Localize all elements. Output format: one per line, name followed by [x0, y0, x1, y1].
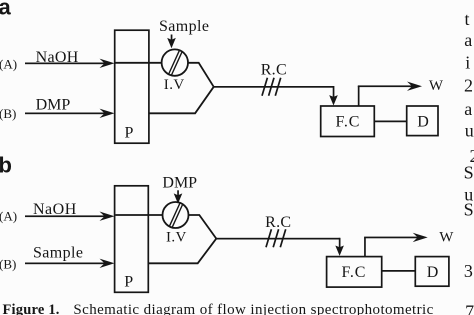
svg-text:7: 7 — [465, 302, 474, 315]
svg-text:F.C: F.C — [342, 264, 367, 281]
svg-text:Sample: Sample — [159, 18, 209, 35]
injection valve I.V top — [162, 49, 188, 75]
svg-text:W: W — [429, 78, 444, 94]
svg-text:S: S — [464, 163, 474, 183]
svg-text:DMP: DMP — [36, 97, 71, 114]
svg-text:a: a — [464, 99, 472, 119]
DMP arrow bottom — [174, 190, 183, 204]
svg-text:2: 2 — [464, 76, 473, 96]
svg-text:(B): (B) — [0, 257, 16, 272]
svg-text:DMP: DMP — [162, 174, 197, 191]
svg-text:(B): (B) — [0, 106, 16, 121]
flow cell F.C bottom — [327, 257, 382, 288]
wire B from pump to junction top — [149, 87, 214, 114]
svg-text:D: D — [417, 113, 429, 130]
wire from valve exit top — [188, 63, 214, 87]
svg-text:P: P — [125, 125, 134, 142]
svg-text:I.V: I.V — [166, 229, 187, 245]
svg-text:NaOH: NaOH — [33, 201, 77, 218]
wire A through pump to valve bottom — [115, 214, 162, 216]
adjacent column text fragments — [464, 9, 474, 315]
injection valve I.V bottom — [163, 202, 189, 228]
svg-text:R.C: R.C — [261, 61, 287, 78]
wire arrow B top — [25, 109, 115, 118]
svg-text:P: P — [124, 273, 133, 290]
svg-text:i: i — [465, 53, 470, 73]
pump P bottom — [115, 186, 149, 292]
svg-text:R.C: R.C — [265, 214, 291, 231]
svg-text:F.C: F.C — [336, 114, 361, 131]
reaction coil marks top — [262, 78, 281, 96]
wire arrow B bottom — [25, 259, 115, 268]
svg-text:a: a — [464, 30, 472, 50]
connector flow cell to detector top — [374, 120, 406, 122]
svg-text:Figure 1.: Figure 1. — [3, 302, 60, 315]
detector D top — [407, 106, 438, 136]
waste wire W top — [358, 82, 422, 107]
svg-text:(A): (A) — [0, 209, 17, 224]
reaction coil marks bottom — [266, 229, 286, 247]
svg-text:W: W — [439, 229, 454, 245]
connector flow cell to detector bottom — [382, 270, 416, 272]
sample arrow top — [167, 35, 176, 49]
wire B from pump to junction bottom — [148, 239, 216, 264]
svg-text:(A): (A) — [0, 56, 17, 71]
svg-text:S: S — [464, 200, 474, 220]
main wire junction to flow cell bottom — [216, 238, 344, 256]
wire arrow A bottom — [25, 212, 115, 221]
svg-text:t: t — [465, 9, 470, 29]
main wire junction to flow cell top — [214, 86, 338, 106]
svg-text:D: D — [427, 264, 439, 281]
svg-text:b: b — [0, 152, 12, 177]
svg-text:3: 3 — [464, 261, 473, 281]
svg-text:I.V: I.V — [164, 77, 185, 93]
flow cell F.C top — [321, 106, 375, 137]
wire from valve exit bottom — [189, 215, 217, 239]
svg-text:a: a — [0, 0, 12, 19]
wire arrow A top — [25, 59, 115, 68]
svg-text:Schematic diagram of flow inje: Schematic diagram of flow injection spec… — [73, 302, 433, 315]
waste wire W bottom — [364, 233, 428, 257]
pump P top — [115, 30, 149, 143]
detector D bottom — [415, 257, 449, 287]
svg-text:Sample: Sample — [33, 245, 83, 262]
wire A through pump to valve top — [116, 62, 163, 64]
svg-text:u: u — [465, 120, 474, 140]
